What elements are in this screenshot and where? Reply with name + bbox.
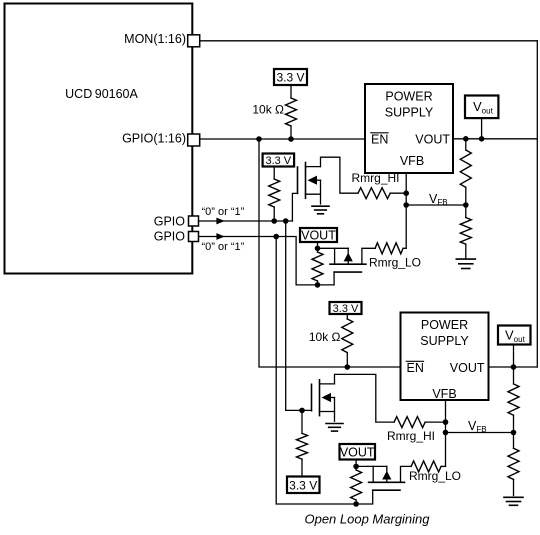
VOUT label box 2	[340, 444, 376, 460]
wire resistor stubs to nodes	[317, 248, 319, 285]
power 3.3V box (pullup 1)	[274, 69, 307, 85]
pin GPIO (lower margining control)	[154, 230, 199, 244]
resistor Rmrg_LO 1	[375, 243, 403, 254]
resistor divider2 lower (VFB2-GND)	[508, 448, 519, 479]
svg-text:10k Ω: 10k Ω	[309, 330, 341, 344]
resistor gate pullup M3	[297, 433, 308, 459]
wire sig1 vertical to lower circuit gate line	[286, 221, 312, 410]
wire Vout box 1 stem	[481, 118, 483, 139]
svg-text:VOUT: VOUT	[340, 445, 375, 459]
Vout box 1	[465, 96, 498, 119]
transistor M2 source lead	[362, 248, 375, 264]
power supply PS2 box	[401, 313, 489, 402]
transistor M4 gate bar	[373, 489, 400, 491]
junction EN2 branch on EN1 net	[256, 136, 262, 142]
svg-text:VFB: VFB	[432, 387, 456, 401]
wire pullup resistor to 3.3V box 4	[301, 459, 303, 476]
VOUT label box 1	[300, 228, 337, 242]
svg-text:“0” or “1”: “0” or “1”	[202, 206, 245, 218]
svg-text:VFB: VFB	[429, 192, 448, 207]
wire divider2 to ground	[513, 479, 515, 495]
wire M3 body/source to ground	[334, 398, 336, 422]
resistor Rmrg_LO 2	[411, 461, 441, 472]
svg-text:GPIO(1:16): GPIO(1:16)	[122, 131, 186, 145]
junction Vout box 2 on VOUT2 net	[511, 364, 517, 370]
junction M4 gate node	[353, 501, 359, 507]
Vout box 2	[498, 326, 531, 345]
wire VOUT box 4 stem	[355, 460, 357, 467]
transistor M3 body stub	[331, 397, 335, 399]
junction Vout box 1 on VOUT1 net	[479, 136, 485, 142]
resistor Rmrg_HI 2	[394, 417, 425, 428]
wire Rmrg_HI 2 to VFB2 pin wire	[425, 421, 445, 423]
wire GPIO control line 1	[199, 220, 293, 222]
ground M1 source	[312, 206, 329, 214]
transistor M4 source lead	[401, 466, 412, 482]
transistor M4 channel bar	[369, 481, 405, 483]
wire Vout box 2 stem	[513, 345, 515, 368]
wire Rmrg_HI 1 to VFB pin wire	[390, 192, 406, 194]
transistor M2 body arrow	[344, 253, 353, 262]
transistor M2 top rail (drain/body)	[318, 247, 349, 249]
wire PS2 VFB pin down	[445, 400, 447, 466]
wire divider2 mid	[513, 415, 515, 448]
junction M2 gate node	[315, 282, 321, 288]
junction gate pullup on line 1	[271, 218, 277, 224]
transistor M4 body stub	[386, 480, 388, 483]
transistor M4 drain lead	[372, 466, 374, 482]
wire Rmrg_LO 1 to VFB pin wire	[403, 247, 406, 249]
svg-text:VOUT: VOUT	[415, 133, 450, 147]
IC U1 UCD90160A body	[5, 4, 193, 274]
resistor M2 gate pullup (below VOUT box)	[312, 252, 323, 281]
wire M4 gate lead	[356, 490, 373, 504]
wire gate pullup to line 1	[273, 207, 275, 221]
transistor M1 body arrow	[308, 176, 318, 185]
resistor divider1 upper (VOUT1-VFB1)	[460, 150, 471, 187]
svg-text:POWER: POWER	[385, 90, 432, 104]
svg-text:3.3 V: 3.3 V	[289, 479, 317, 493]
svg-text:Rmrg_HI: Rmrg_HI	[387, 429, 435, 443]
svg-text:VFB: VFB	[468, 419, 487, 434]
wire sig2 vertical to lower circuit bottom line	[276, 237, 356, 505]
wire VOUT1 net from PS1 to right rail	[453, 138, 537, 140]
svg-text:3.3 V: 3.3 V	[333, 303, 359, 315]
wire 3.3V box2 to gate pullup resistor	[273, 167, 275, 180]
transistor M1 gate bar	[297, 167, 299, 193]
junction M3 gate pullup node	[299, 408, 305, 414]
wire resistor bottom to EN1 net	[290, 126, 292, 139]
resistor 10k pullup #2	[342, 319, 353, 353]
transistor M2 drain lead	[334, 248, 336, 264]
net VFB2 wire	[446, 432, 514, 434]
junction divider 1 top on VOUT1 net	[463, 136, 469, 142]
svg-text:VFB: VFB	[400, 154, 424, 168]
transistor M1 channel bar	[305, 163, 307, 199]
wire EN2 branch down and right to PS2 EN	[259, 139, 401, 367]
power 3.3V box (gate pullup M1)	[263, 154, 295, 168]
wire 3.3V box3 to resistor 10k #2	[346, 314, 348, 319]
svg-text:VOUT: VOUT	[450, 361, 485, 375]
transistor M1 drain stub	[306, 166, 321, 168]
power 3.3V box (pullup 2)	[330, 302, 362, 315]
svg-text:GPIO: GPIO	[154, 230, 186, 244]
transistor M3 gate bar	[311, 384, 313, 410]
transistor M2 body lead	[347, 248, 349, 253]
svg-text:SUPPLY: SUPPLY	[385, 106, 434, 120]
wire MON right vertical rail	[536, 41, 538, 367]
wire resistor to EN2 net	[346, 353, 348, 367]
pin MON(1:16)	[124, 32, 200, 47]
svg-text:POWER: POWER	[421, 318, 468, 332]
wire M3 gate node to pullup resistor	[301, 410, 303, 433]
wire VOUT2 net from PS2 to right rail	[489, 366, 538, 368]
wire MON bus from pin to right rail	[200, 40, 538, 42]
svg-text:Rmrg_LO: Rmrg_LO	[409, 469, 461, 483]
wire EN1 net from GPIO(1:16) pin to PS1 EN	[200, 138, 365, 140]
transistor M1 body stub	[317, 179, 321, 181]
wire divider1 to ground	[465, 244, 467, 259]
resistor divider1 lower (VFB1-GND)	[460, 218, 471, 245]
wire M3 drain up and over to Rmrg_HI 2	[335, 374, 395, 422]
transistor M4 top rail (drain/body)	[356, 465, 387, 467]
resistor Rmrg_HI 1	[358, 188, 390, 199]
svg-text:10k Ω: 10k Ω	[252, 103, 284, 117]
pin GPIO(1:16)	[122, 131, 200, 146]
transistor M4 body lead	[386, 466, 388, 471]
resistor M4 gate pullup (below VOUT box)	[351, 470, 362, 500]
wire M1 drain up and over to Rmrg_HI	[321, 157, 359, 193]
transistor M1 source stub	[306, 193, 321, 195]
svg-text:Rmrg_HI: Rmrg_HI	[352, 171, 400, 185]
junction sig1 branch on line 1	[283, 218, 289, 224]
wire divider1 mid	[465, 187, 467, 217]
svg-text:GPIO: GPIO	[154, 215, 186, 229]
transistor M3 body arrow	[322, 393, 332, 402]
wire VOUT box 1 stem	[317, 242, 319, 248]
net VFB1 wire	[406, 204, 466, 206]
junction sig2 branch on line 2	[273, 234, 279, 240]
wire 3.3V box to resistor R 10k #1	[290, 85, 292, 98]
power 3.3V box (gate pullup M3)	[287, 477, 320, 494]
junction VFB1 net on divider 1	[463, 202, 469, 208]
svg-text:UCD 90160A: UCD 90160A	[65, 87, 138, 101]
power supply PS1 box	[365, 84, 453, 173]
wire Rmrg_LO 2 to VFB2 pin wire	[441, 465, 445, 467]
transistor M4 body arrow	[382, 471, 391, 480]
transistor M2 gate bar	[334, 271, 361, 273]
junction VOUT2/M4 drain node	[353, 464, 359, 470]
arrowhead GPIO line 2	[216, 233, 224, 240]
svg-text:VOUT: VOUT	[301, 228, 336, 242]
junction VOUT1/M2 drain node	[315, 246, 321, 252]
svg-text:Open Loop Margining: Open Loop Margining	[304, 512, 430, 527]
ground M3 source	[326, 424, 343, 432]
transistor M3 channel bar	[319, 380, 321, 416]
junction Rmrg_HI2 on VFB2 pin wire	[443, 419, 449, 425]
junction 10k pullup on EN2 net	[345, 364, 351, 370]
transistor M2 body stub	[347, 261, 349, 264]
resistor divider2 upper (VOUT2-VFB2)	[508, 384, 519, 415]
wire M1 gate lead	[292, 193, 297, 221]
svg-text:3.3 V: 3.3 V	[265, 155, 291, 167]
wire PS1 VFB pin down	[405, 173, 407, 248]
svg-text:MON(1:16): MON(1:16)	[124, 32, 186, 46]
ground divider 1	[456, 259, 475, 268]
junction Rmrg_HI1 on VFB pin wire	[403, 190, 409, 196]
svg-text:Rmrg_LO: Rmrg_LO	[369, 255, 421, 269]
wire GPIO control line 2	[199, 237, 318, 285]
svg-text:“0” or “1”: “0” or “1”	[202, 241, 245, 253]
junction VFB2 net on VFB2 pin wire	[443, 430, 449, 436]
svg-text:EN: EN	[407, 361, 424, 375]
ground divider 2	[504, 497, 523, 505]
wire M2 gate lead	[318, 272, 335, 285]
pin GPIO (upper margining control)	[154, 215, 199, 229]
svg-text:3.3 V: 3.3 V	[276, 71, 304, 85]
wire VOUT1 to divider resistor	[465, 139, 467, 150]
resistor 10k pullup #1	[286, 98, 297, 126]
junction VFB2 net on divider 2	[511, 430, 517, 436]
transistor M3 drain stub	[320, 383, 335, 385]
svg-text:EN: EN	[371, 133, 388, 147]
transistor M2 channel bar	[330, 263, 366, 265]
wire resistor stubs to nodes	[355, 466, 357, 504]
arrowhead GPIO line 1	[216, 218, 224, 225]
svg-text:SUPPLY: SUPPLY	[420, 334, 469, 348]
wire VOUT2 to divider resistor	[513, 367, 515, 384]
wire M1 body/source to ground	[320, 180, 322, 204]
junction 10k pullup on EN1 net	[288, 136, 294, 142]
resistor gate pullup M1	[269, 179, 280, 207]
transistor M3 source stub	[320, 411, 335, 413]
junction VFB1 net on VFB pin wire	[403, 202, 409, 208]
